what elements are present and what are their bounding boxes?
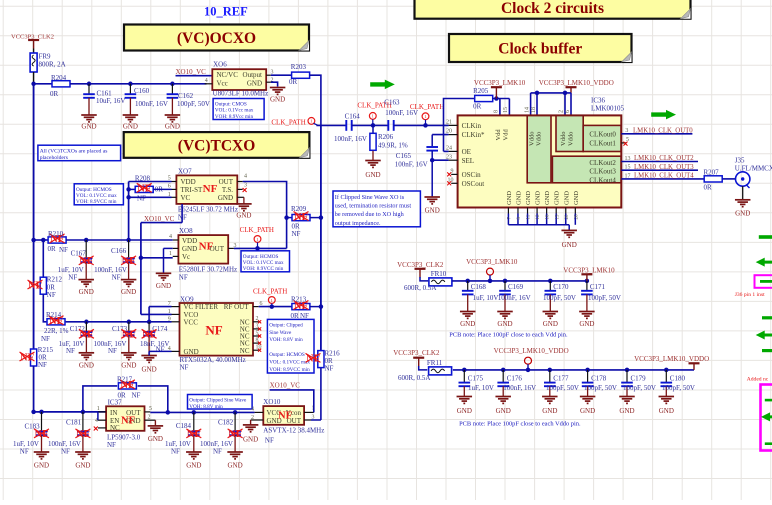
wire to C164 [316, 124, 346, 126]
wire R216 to XO10 OUT [320, 368, 322, 420]
capacitor C167 [80, 240, 92, 280]
svg-text:19: 19 [555, 214, 560, 220]
resistor R212 [40, 277, 46, 294]
wire R214 to XO9 VCC [66, 321, 172, 323]
svg-text:XO8: XO8 [179, 227, 193, 235]
svg-text:21: 21 [446, 119, 452, 125]
CLK_PATH marker near XO8 [254, 236, 261, 243]
svg-text:XO10_VC: XO10_VC [270, 382, 301, 390]
svg-text:GND: GND [525, 191, 532, 205]
no-connect marker OSCin [447, 172, 451, 176]
resistor R210 [48, 237, 66, 243]
svg-text:0R: 0R [291, 312, 300, 320]
svg-text:600R, 0.5A: 600R, 0.5A [404, 284, 436, 292]
resistor R209 [292, 215, 310, 221]
svg-text:Output: HCMOS: Output: HCMOS [243, 254, 279, 260]
svg-text:18: 18 [531, 107, 537, 113]
svg-text:All (VC)TCXOs are placed as: All (VC)TCXOs are placed as [40, 148, 108, 155]
note XO9 output [267, 319, 314, 373]
svg-text:Added nc: Added nc [747, 377, 769, 383]
svg-text:R214: R214 [46, 311, 62, 319]
capacitor C168 [462, 281, 474, 312]
svg-text:C168: C168 [471, 283, 487, 291]
svg-text:TRI-ST: TRI-ST [181, 186, 204, 194]
svg-text:C178: C178 [591, 375, 607, 383]
pin 2 XO7 GND [237, 196, 244, 198]
svg-text:VOL: 0.1VCC max: VOL: 0.1VCC max [269, 359, 310, 365]
port arrow right edge 2 [756, 258, 772, 267]
svg-text:NF: NF [300, 312, 309, 320]
R210 NF mark [50, 234, 65, 245]
junction C176 [501, 368, 506, 373]
svg-text:Vdd: Vdd [503, 129, 510, 141]
wire R204 to XO6 Vcc rail [70, 83, 207, 85]
CLK_PATH marker mid-right [422, 113, 429, 120]
svg-text:3: 3 [625, 128, 628, 134]
junction rail top [31, 82, 36, 87]
wire XO6 to R203 [271, 74, 292, 76]
power port VCC3P3_LMK10_VDDO [566, 87, 577, 93]
CLK_PATH marker near XO9 [268, 297, 275, 304]
IC36 CLKout0/1 block [583, 125, 621, 151]
svg-text:NF: NF [107, 441, 116, 449]
port arrow in small markup box [760, 280, 772, 283]
capacitor C173 NF mark [121, 329, 136, 340]
svg-text:IC36: IC36 [591, 97, 606, 105]
capacitor C182 NF mark [228, 429, 243, 440]
svg-text:placeholders: placeholders [40, 155, 68, 161]
power port circle VCC3P3_LMK10 [487, 268, 494, 281]
fuse FR11 [429, 367, 452, 375]
note XO10 output [188, 395, 253, 411]
capacitor C183 ground [34, 452, 50, 470]
svg-text:2: 2 [559, 110, 565, 113]
wire CLKin* [432, 134, 448, 136]
svg-text:0R: 0R [118, 391, 127, 399]
svg-text:0R: 0R [48, 245, 57, 253]
svg-text:T.S.: T.S. [222, 186, 233, 194]
wire to R212 [42, 240, 44, 277]
svg-text:Output: Clipped Sine Wave: Output: Clipped Sine Wave [189, 398, 247, 404]
junction pin 18 [535, 91, 540, 96]
capacitor C169 ground [497, 312, 513, 328]
resistor R208 [135, 186, 153, 192]
svg-text:VDD: VDD [181, 178, 196, 186]
capacitor C171 ground [579, 312, 595, 328]
svg-text:NF: NF [187, 429, 201, 440]
power port VCC3P3_LMK10 [491, 87, 502, 98]
junction C173 [127, 320, 132, 325]
svg-text:NF: NF [68, 273, 77, 281]
svg-text:R209: R209 [291, 205, 307, 213]
wire XO9 pin7 [149, 306, 171, 308]
svg-text:IN: IN [110, 409, 117, 417]
junction rail bottom [31, 410, 36, 415]
svg-text:E6245LF 30.72 MHz: E6245LF 30.72 MHz [178, 206, 238, 214]
wire pin 2 Vddo [564, 93, 566, 116]
svg-text:24: 24 [446, 146, 452, 152]
svg-text:GND: GND [148, 435, 163, 443]
wire rail to R204 [34, 83, 52, 85]
resistor R203 [292, 72, 310, 78]
IC37 NF mark [121, 415, 135, 426]
IC36 pin name texts [462, 122, 617, 205]
XO8 NF mark [199, 240, 214, 252]
svg-text:be removed due to XO high: be removed due to XO high [335, 211, 405, 218]
wire XO7 to ground [243, 197, 245, 203]
svg-text:NF: NF [121, 415, 135, 426]
capacitor C184 [188, 412, 200, 452]
svg-text:NF: NF [41, 335, 50, 343]
junction VC XO7 [126, 195, 131, 200]
svg-text:100nF, 16V: 100nF, 16V [503, 384, 536, 392]
svg-text:OSCout: OSCout [462, 180, 485, 188]
svg-text:GND: GND [535, 191, 542, 205]
svg-text:J36 pin 1 inst: J36 pin 1 inst [735, 292, 765, 298]
junction C171 [585, 279, 590, 284]
junction R209 [284, 215, 289, 220]
junction rail R210 [31, 238, 36, 243]
wire R208 to pin 6 [154, 188, 172, 190]
svg-text:C166: C166 [111, 247, 127, 255]
pin 1 XO9 [172, 313, 180, 315]
svg-text:1: 1 [169, 251, 172, 257]
svg-text:GND: GND [34, 462, 49, 470]
svg-text:SEL: SEL [462, 157, 474, 165]
capacitor C184 NF mark [186, 429, 201, 440]
svg-text:NF: NF [292, 230, 301, 238]
junction C166 [126, 238, 131, 243]
svg-text:If Clipped Sine Wave XO is: If Clipped Sine Wave XO is [335, 194, 405, 201]
capacitor C174 ground [141, 356, 157, 374]
pin 10 OSCout [451, 182, 457, 184]
junction C182 [233, 410, 238, 415]
svg-text:VCC: VCC [184, 319, 199, 327]
svg-text:NF: NF [180, 363, 189, 371]
svg-text:GND: GND [236, 212, 251, 220]
svg-text:NF: NF [28, 280, 42, 291]
junction C175 [462, 368, 467, 373]
svg-text:GND: GND [142, 366, 157, 374]
junction VDDO tap [526, 368, 531, 373]
wire XO8 GND down [163, 248, 165, 273]
svg-text:NF: NF [213, 448, 222, 456]
svg-text:output impedance.: output impedance. [335, 220, 381, 227]
capacitor C183 [36, 412, 48, 452]
wire pin 8 Vdd [499, 99, 501, 116]
wire C163 to CLKin [394, 124, 449, 126]
oscillator XO10 [263, 406, 304, 425]
svg-text:XO9: XO9 [180, 295, 194, 303]
svg-text:GND: GND [121, 288, 136, 296]
svg-text:23: 23 [446, 154, 452, 160]
svg-text:CLKin*: CLKin* [462, 131, 485, 139]
IC36 Vddo block A [527, 116, 551, 183]
note clipped sine wave warning [333, 191, 420, 227]
svg-text:NF: NF [35, 429, 49, 440]
pin 5 CLKout1 [621, 142, 626, 144]
svg-text:9: 9 [451, 169, 454, 175]
svg-text:VCC3P3_LMK10: VCC3P3_LMK10 [466, 258, 518, 266]
svg-text:5: 5 [149, 406, 152, 412]
svg-text:XO7: XO7 [178, 167, 192, 175]
svg-text:CLKout0: CLKout0 [589, 130, 616, 138]
svg-text:20: 20 [565, 214, 570, 220]
wire to R217 [83, 386, 117, 412]
junction C179 [625, 368, 630, 373]
svg-text:OSCin: OSCin [462, 171, 482, 179]
capacitor C171 [581, 281, 593, 312]
wire pin 14 Vddo [530, 93, 532, 116]
junction C168 [465, 279, 470, 284]
svg-text:CLKin: CLKin [462, 122, 482, 130]
svg-text:Vc: Vc [182, 253, 190, 261]
resistor R204 [52, 81, 70, 87]
R208 NF mark [137, 183, 152, 194]
port arrow in large markup box 1 [765, 399, 772, 402]
svg-text:GND: GND [543, 320, 558, 328]
svg-text:100pF, 50V: 100pF, 50V [662, 384, 695, 392]
svg-text:NF: NF [122, 330, 136, 341]
capacitor C183 NF mark [34, 429, 49, 440]
oscillator XO8 [178, 235, 228, 264]
capacitor C182 [229, 412, 241, 452]
pin 7 XO9 [172, 306, 180, 308]
svg-text:NF: NF [156, 346, 165, 354]
wire pin7 vertical [148, 307, 150, 322]
svg-text:GND: GND [218, 194, 233, 202]
capacitor C162 ground [165, 115, 181, 131]
wire C164 to C163 [352, 124, 389, 126]
svg-text:PCB note: Place 100pF close to: PCB note: Place 100pF close to each Vdd … [449, 332, 568, 339]
svg-text:OE: OE [462, 148, 471, 156]
svg-text:100nF, 16V: 100nF, 16V [395, 161, 428, 169]
wire XO9 GND [149, 350, 171, 352]
wire rail to IC37 IN [34, 366, 107, 412]
wire J35 to ground [742, 186, 744, 199]
svg-text:VCC3P3_CLK2: VCC3P3_CLK2 [393, 349, 440, 357]
R217 NF mark [120, 380, 135, 391]
svg-text:ASVTX-12 38.4MHz: ASVTX-12 38.4MHz [263, 427, 324, 435]
svg-text:0R: 0R [289, 78, 298, 86]
banner (VC)TCXO [124, 132, 310, 158]
svg-text:2: 2 [148, 415, 151, 421]
pin 4 XO8 VDD [173, 239, 179, 241]
svg-text:RF OUT: RF OUT [224, 303, 249, 311]
wire marker stub XO8 [257, 242, 259, 248]
svg-text:100nF, 16V: 100nF, 16V [334, 135, 367, 143]
IC36 CLKout2-4 block [552, 156, 621, 183]
svg-text:Output: HCMOS: Output: HCMOS [269, 352, 305, 358]
svg-text:LMK00105: LMK00105 [591, 105, 625, 113]
wire Vddo decoupling rail [453, 369, 694, 371]
svg-text:GND: GND [563, 191, 570, 205]
pin 2 XO6 GND [266, 81, 271, 83]
XO7 NF mark [203, 183, 218, 195]
pin 1 XO7 VC [172, 196, 177, 198]
capacitor C160 ground [123, 115, 138, 131]
ground J35 [735, 200, 751, 218]
svg-text:1: 1 [97, 406, 100, 412]
svg-text:GND: GND [542, 407, 557, 415]
svg-text:11: 11 [527, 214, 532, 219]
junction C162 [170, 82, 175, 87]
pin 2 XO10 GND [251, 419, 264, 421]
capacitor C177 ground [542, 397, 558, 416]
svg-text:VOH: 8.8V min: VOH: 8.8V min [189, 404, 223, 410]
wire R217 to OUT [138, 386, 168, 413]
wire IC37 OUT to XO10 [150, 411, 254, 413]
junction SEL [430, 158, 435, 163]
svg-text:0R: 0R [50, 90, 59, 98]
pin 5 IC37 OUT [145, 411, 151, 413]
wire marker stub [314, 123, 318, 125]
svg-text:NF: NF [137, 184, 151, 195]
svg-text:NF: NF [278, 410, 292, 421]
wire R213 to rail [310, 306, 321, 308]
markup box large [761, 385, 772, 451]
svg-text:LMK10_CLK_OUT0: LMK10_CLK_OUT0 [633, 127, 693, 134]
XO10 NF mark [278, 410, 292, 421]
svg-text:GND: GND [365, 171, 380, 179]
svg-text:100pF, 50V: 100pF, 50V [543, 294, 576, 302]
wire to C165 [431, 135, 433, 147]
svg-text:16: 16 [546, 214, 551, 220]
capacitor C170 [545, 281, 557, 312]
note XO7 output HCMOS [74, 184, 123, 205]
capacitor C176 [497, 370, 509, 397]
svg-text:10uF, 16V: 10uF, 16V [96, 97, 125, 105]
capacitor C174 NF mark [142, 329, 157, 340]
svg-text:NF: NF [132, 391, 141, 399]
svg-text:Vdd: Vdd [495, 129, 502, 141]
svg-text:GND: GND [573, 191, 580, 205]
junction C180 [664, 368, 669, 373]
svg-text:NF: NF [137, 194, 146, 202]
capacitor C181 ground [75, 452, 91, 470]
svg-text:VOL: 0.1VCC max: VOL: 0.1VCC max [76, 193, 117, 199]
port arrow [370, 80, 395, 90]
note XO6 output CMOS [213, 99, 264, 120]
port arrow right edge 1 [759, 235, 772, 239]
svg-text:VOH: 8.9Vcc min: VOH: 8.9Vcc min [215, 114, 254, 120]
svg-text:R207: R207 [704, 168, 720, 176]
wire XO9 pin1 [141, 313, 172, 315]
wire to FR11 [419, 366, 428, 370]
capacitor C163 [388, 120, 393, 131]
svg-text:FR9: FR9 [39, 53, 52, 61]
R212 NF mark [28, 280, 43, 291]
svg-text:VCC3P3_LMK10: VCC3P3_LMK10 [474, 79, 526, 87]
svg-text:15: 15 [625, 165, 631, 171]
capacitor C173 [123, 322, 135, 353]
svg-text:RTX5032A, 40.00MHz: RTX5032A, 40.00MHz [180, 356, 246, 364]
svg-text:Output: CMOS: Output: CMOS [215, 102, 247, 108]
junction Vdd power [494, 96, 499, 101]
capacitor C164 [346, 120, 351, 131]
svg-text:NC: NC [240, 347, 250, 355]
svg-text:C162: C162 [178, 92, 194, 100]
svg-text:GND: GND [123, 123, 138, 131]
wire R206 to ground [372, 151, 374, 161]
wire pin 18 Vddo [536, 93, 538, 116]
capacitor C175 ground [457, 397, 473, 416]
capacitor C166 ground [121, 280, 137, 296]
svg-text:6: 6 [565, 110, 571, 113]
oscillator XO7 [176, 175, 237, 204]
wire OE [444, 150, 449, 152]
pin 9 XO9 [172, 321, 180, 323]
svg-text:VOH: 8.8V min: VOH: 8.8V min [269, 337, 303, 343]
pin 1 IC37 IN [98, 411, 106, 413]
wire R207 to J35 [723, 178, 736, 180]
svg-text:Output: Clipped: Output: Clipped [269, 322, 303, 328]
svg-text:LMK10_CLK_OUT3: LMK10_CLK_OUT3 [634, 164, 694, 171]
note TCXO placeholders [38, 145, 121, 161]
svg-text:NF: NF [112, 273, 121, 281]
wire VDD XO7 [129, 181, 172, 183]
pin 2 XO8 GND [173, 247, 179, 249]
wire XO10_VC down [140, 223, 142, 315]
svg-text:CLKout4: CLKout4 [589, 176, 616, 184]
svg-text:20: 20 [446, 129, 452, 135]
ground XO10 [243, 425, 259, 444]
pin 23 SEL [449, 159, 458, 161]
R216 NF mark [306, 353, 321, 364]
wire Vdd decoupling rail [452, 280, 589, 282]
no-connect marker CLKout1 [624, 142, 628, 146]
resistor R214 [47, 319, 65, 325]
pin 4 XO7 OUT [237, 181, 242, 183]
junction LMK10 power tap [488, 279, 493, 284]
svg-text:8: 8 [256, 338, 259, 344]
svg-text:1uF, 10V: 1uF, 10V [473, 294, 499, 302]
junction XO8 Vc [139, 256, 144, 261]
svg-text:1: 1 [372, 114, 374, 119]
capacitor C180 [661, 370, 673, 397]
resistor R216 [318, 351, 324, 368]
svg-text:R206: R206 [378, 133, 394, 141]
wire CLK_PATH rail vertical [320, 125, 322, 350]
svg-text:10_REF: 10_REF [204, 5, 248, 19]
capacitor C166 [123, 240, 135, 280]
wire to R209 [287, 217, 292, 219]
ground IC36 [561, 230, 577, 249]
junction CLKin [423, 123, 428, 128]
ground C165 [424, 197, 440, 215]
svg-text:C164: C164 [345, 113, 361, 121]
wire XO7 OUT to XO8 OUT [243, 182, 287, 249]
XO9 NC pins [253, 316, 262, 352]
svg-text:U8073LF 10.0MHz: U8073LF 10.0MHz [213, 90, 269, 98]
regulator IC37 [106, 406, 144, 432]
svg-text:NF: NF [38, 361, 47, 369]
oscillator XO9 [180, 303, 254, 356]
svg-text:R205: R205 [473, 87, 489, 95]
wire rail to R210 [34, 239, 49, 241]
svg-text:GND: GND [75, 462, 90, 470]
svg-text:Sine Wave: Sine Wave [269, 330, 292, 336]
svg-text:XO10_VC: XO10_VC [176, 68, 207, 76]
pin 1 XO10 Vcon [304, 411, 314, 413]
svg-text:J35: J35 [735, 156, 745, 164]
capacitor C168 ground [460, 312, 476, 328]
junction C177 [548, 368, 553, 373]
pin 5 XO7 VDD [172, 181, 177, 183]
resistor R217 [118, 383, 136, 389]
pin 4 IC37 EN [98, 419, 106, 421]
svg-text:100pF, 50V: 100pF, 50V [546, 384, 579, 392]
